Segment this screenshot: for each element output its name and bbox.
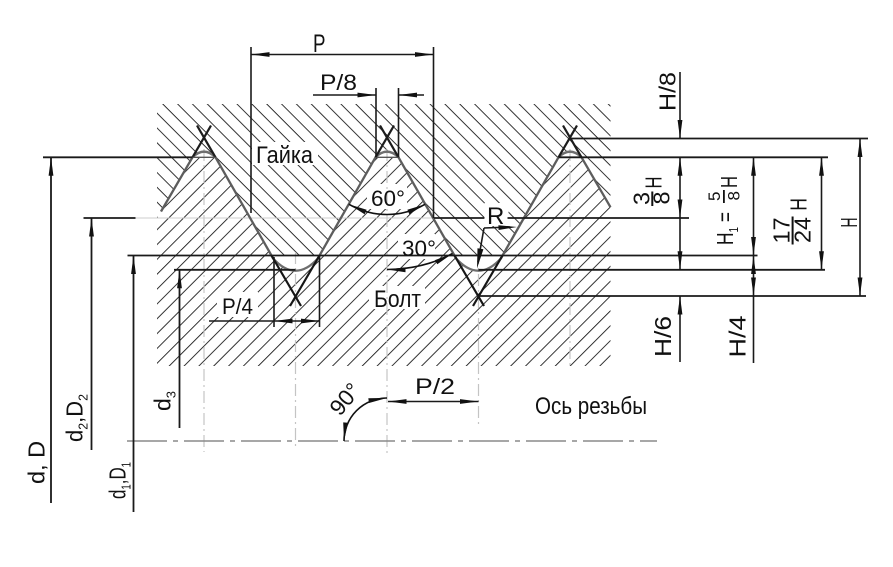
17/24H dimension line — [821, 157, 823, 269]
thread profile right flank of tooth 3 — [582, 157, 611, 207]
centerline under peak 2 — [386, 149, 388, 455]
d3 arrow — [177, 270, 182, 289]
P/8 arrow right — [399, 93, 418, 98]
H/6 dimension line bottom leader — [679, 296, 681, 362]
30° arc arrow left — [387, 267, 406, 272]
d1,D1 arrow — [131, 256, 136, 275]
3H/8 arrow bottom — [678, 200, 683, 219]
sharp crest construction lines at peak x=204 — [193, 126, 212, 158]
svg-text:d1,D1: d1,D1 — [105, 462, 134, 499]
P/2 arrow left — [388, 399, 407, 404]
d3 dimension line — [179, 270, 181, 428]
P/8 extension line right — [398, 88, 400, 157]
H1 arrow top — [751, 157, 756, 176]
label H1 = 5H/8 — [705, 176, 744, 245]
H1 and H/4 dimension line — [753, 157, 755, 363]
thread profile left flank of thread tooth 1 — [161, 157, 193, 211]
d2,D2 arrow — [89, 218, 94, 237]
3H/8 arrow top — [678, 157, 683, 176]
centerline under root 1 — [295, 252, 297, 450]
sharp crest apex level line (top of H) — [570, 138, 868, 140]
d3 root-bottom line left segment — [174, 269, 296, 271]
P dimension line — [251, 54, 434, 56]
d,D dimension line — [50, 157, 52, 503]
centerline under root 2 — [478, 252, 480, 428]
svg-text:Гайка: Гайка — [256, 142, 314, 169]
label 3/8 H (fraction) — [628, 177, 674, 207]
svg-text:P/2: P/2 — [415, 374, 455, 399]
H arrow bottom — [858, 278, 863, 297]
svg-text:30°: 30° — [402, 236, 436, 261]
svg-text:60°: 60° — [371, 186, 405, 211]
svg-text:H/4: H/4 — [725, 315, 751, 357]
H/8 dimension line — [679, 72, 681, 139]
label halo R — [485, 203, 509, 226]
17/24H arrow top — [819, 157, 824, 176]
d,D arrow — [49, 157, 54, 176]
H/4 arrow bottom — [751, 278, 756, 297]
thread profile flank root2-tooth3 — [501, 157, 559, 258]
P/4 arrow left — [274, 319, 293, 324]
svg-text:H: H — [786, 198, 812, 211]
d1,D1 dimension line — [133, 256, 135, 513]
rounded crest arc at peak x=570 — [559, 152, 582, 158]
P/4 dimension line — [209, 320, 320, 322]
crest clearance lens at peak x=570 — [559, 152, 582, 158]
P dimension arrow left — [251, 52, 270, 57]
thread profile flank root1-tooth2 — [318, 157, 376, 258]
P dimension extension line left — [250, 47, 252, 213]
90° arc arrow bottom — [343, 422, 348, 441]
svg-text:P: P — [313, 30, 326, 58]
svg-text:R: R — [487, 203, 504, 230]
P/8 extension line left — [375, 88, 377, 157]
d2,D2 dimension line — [91, 218, 93, 450]
P/8 dimension line left part — [313, 94, 376, 96]
R leader arrow right — [498, 225, 517, 230]
R leader horizontal part — [484, 227, 510, 228]
svg-text:H/6: H/6 — [650, 316, 676, 357]
svg-text:d, D: d, D — [24, 441, 50, 484]
pitch line right segment — [434, 217, 484, 219]
sharp crest construction lines at peak x=570 — [559, 126, 578, 158]
svg-text:H: H — [716, 176, 742, 188]
thread profile flank tooth2-root2 — [399, 157, 457, 258]
30° angle arc — [387, 254, 453, 270]
bolt cross-section hatching (material below thread profile) — [157, 157, 611, 366]
90° arc arrow top — [368, 398, 387, 403]
60° angle arc — [349, 204, 425, 214]
P/4 extension line left — [273, 257, 275, 327]
svg-text:8: 8 — [648, 192, 674, 205]
label 17/24 H (fraction) — [769, 198, 816, 245]
crest flat chord tooth1 — [193, 156, 216, 158]
90° angle arc — [344, 398, 387, 441]
label 90° — [325, 378, 366, 420]
nut cross-section hatching (material above thread profile) — [157, 104, 611, 256]
17/24H arrow bottom — [819, 251, 824, 269]
P/8 arrow left — [358, 93, 377, 98]
H/4 arrow top — [751, 256, 756, 275]
sharp root construction lines at root x=296 — [272, 256, 302, 307]
H bottom line (sharp root apex level) — [479, 295, 867, 297]
root clearance lens at root x=296 — [272, 256, 320, 270]
svg-text:H/8: H/8 — [655, 72, 681, 111]
svg-text:Ось резьбы: Ось резьбы — [535, 393, 647, 420]
thread profile flank tooth1-root1 — [216, 157, 274, 258]
svg-text:d2,D2: d2,D2 — [62, 394, 91, 442]
crest clearance lens at peak x=204 — [193, 152, 216, 158]
crest level line (right, d level) — [559, 156, 829, 158]
svg-text:H: H — [641, 177, 667, 189]
label halo 30° — [398, 234, 435, 259]
H/6 arrow bottom — [678, 296, 683, 315]
pitch line right segment cont. after R label — [508, 217, 690, 219]
label halo Болт — [369, 286, 425, 309]
sharp crest construction lines at peak x=387 — [376, 126, 395, 158]
svg-text:5: 5 — [705, 192, 724, 201]
P/2 arrow right — [460, 399, 479, 404]
H1 arrow bottom — [751, 237, 756, 256]
d1,D1 minor diameter line — [128, 255, 758, 257]
rounded root arc at root x=296 — [273, 258, 319, 271]
d,D major diameter line (left) — [43, 156, 193, 158]
faint pitch-line continuation — [136, 217, 435, 219]
P/4 arrow right — [301, 319, 320, 324]
svg-text:P/8: P/8 — [320, 70, 357, 95]
crest flat chord tooth2 — [376, 156, 399, 158]
svg-text:24: 24 — [790, 217, 816, 243]
rounded crest arc at peak x=387 — [376, 152, 399, 158]
sharp root construction lines at root x=478 — [455, 256, 485, 307]
root clearance lens at root x=478 — [455, 256, 503, 270]
P/4 extension line right — [319, 256, 321, 328]
svg-text:P/4: P/4 — [222, 294, 253, 319]
d2,D2 pitch line left segment — [84, 217, 136, 219]
svg-text:8: 8 — [725, 191, 744, 200]
thread axis line (Ось резьбы) — [127, 440, 657, 442]
P dimension arrow right — [415, 52, 434, 57]
60° arc arrow right — [407, 204, 425, 214]
P/2 dimension line — [388, 401, 479, 403]
3H/8 dimension line — [679, 157, 681, 269]
label halo 60° — [367, 184, 407, 209]
H arrow top — [858, 139, 863, 158]
rounded crest arc at peak x=204 — [193, 152, 216, 158]
H/8 arrow — [678, 120, 683, 139]
P dimension extension line right — [433, 47, 435, 218]
H dimension line — [859, 139, 861, 297]
30° arc arrow right — [435, 254, 453, 265]
centerline under peak 3 — [569, 149, 571, 366]
R leader slanted part — [478, 228, 484, 262]
R leader arrow at root arc — [477, 248, 483, 268]
crest clearance lens at peak x=387 — [376, 152, 399, 158]
H/6 arrow top — [678, 251, 683, 269]
label halo Гайка — [252, 142, 318, 165]
60° arc arrow left — [349, 204, 367, 214]
P/8 dimension line right part — [399, 94, 425, 96]
svg-text:H: H — [836, 218, 862, 228]
label halo P/4 — [217, 292, 258, 317]
svg-text:Болт: Болт — [374, 286, 421, 313]
root-bottom line right segment (17/24H datum) — [479, 269, 826, 271]
rounded root arc at root x=478 — [456, 258, 502, 271]
centerline under peak 1 — [203, 149, 205, 452]
